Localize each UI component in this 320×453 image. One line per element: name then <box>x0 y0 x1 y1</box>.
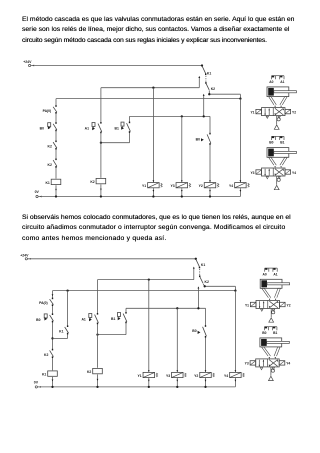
svg-text:B0: B0 <box>262 331 266 335</box>
label Y4 <box>286 362 290 366</box>
wire K2 common feed (diagram 2) <box>197 286 199 308</box>
svg-text:+24V: +24V <box>20 253 29 257</box>
valve solenoid Y1 (diagram 1) <box>142 180 162 192</box>
node 0V junction Y1 (diagram 2) <box>148 386 150 388</box>
valve 5/2 cylinder A diagram 2 <box>256 301 280 309</box>
svg-text:Y2: Y2 <box>287 303 291 307</box>
svg-text:B0: B0 <box>40 127 44 131</box>
limit switch A1 (diagram 1) <box>85 122 102 133</box>
svg-text:K1: K1 <box>59 329 63 333</box>
solenoid pilot Y1 (valve cylinder A diagram 2) <box>250 302 256 306</box>
wire 0V rail (diagram 1) <box>38 196 240 198</box>
label Y2 <box>292 110 296 114</box>
node 0V junction Y3 (diagram 1) <box>181 195 183 197</box>
air supply (valve cylinder A diagram 1) <box>274 116 280 130</box>
wire K1 line (diagram 1) <box>101 76 200 88</box>
label Y1 <box>245 303 249 307</box>
pushbutton PA(0) (diagram 2) <box>39 298 53 306</box>
valve solenoid Y3 (diagram 1) <box>170 180 190 192</box>
svg-text:Y4: Y4 <box>229 184 233 188</box>
wire Y1 branch column (diagram 2) <box>148 280 150 387</box>
svg-text:B1: B1 <box>273 331 277 335</box>
node junction K2-line / K1 hold branch (diagram 2) <box>66 289 68 291</box>
valve solenoid Y4 (diagram 1) <box>229 180 249 192</box>
label Y3 <box>250 171 254 175</box>
svg-text:K1: K1 <box>45 181 49 185</box>
node 0V junction K2 (diagram 2) <box>96 386 98 388</box>
svg-text:Y3: Y3 <box>245 362 249 366</box>
label B1 <box>273 331 277 335</box>
svg-text:K1: K1 <box>207 72 211 76</box>
wire Y4 branch column (diagram 2) <box>234 291 236 387</box>
mechanical link K1-K2 (diagram 2) <box>199 269 201 276</box>
exhaust ports (valve cylinder B diagram 2) <box>260 368 274 370</box>
node junction A1/B1 (diagram 1) <box>100 142 102 144</box>
svg-text:Y4: Y4 <box>224 374 228 378</box>
relay coil K2 (diagram 2) <box>87 368 102 375</box>
air supply (valve cylinder A diagram 2) <box>269 309 275 323</box>
solenoid pilot Y3 (valve cylinder B diagram 1) <box>256 170 262 174</box>
node 0V junction K1 (diagram 2) <box>51 386 53 388</box>
node 0V terminal (diagram 2) <box>34 381 41 388</box>
svg-text:Y3: Y3 <box>170 184 174 188</box>
valve 5/2 cylinder B diagram 2 <box>256 359 280 367</box>
svg-text:K2: K2 <box>48 145 52 149</box>
svg-text:Y1: Y1 <box>137 374 141 378</box>
contact K2 changeover (diagram 1) <box>206 82 215 91</box>
node junction K2-line / Y4 branch (diagram 2) <box>234 289 236 291</box>
wire 0V rail (diagram 2) <box>37 386 235 388</box>
wire +24V rail (diagram 2) <box>27 258 195 260</box>
node junction K2-line / Y4 branch (diagram 1) <box>239 97 241 99</box>
solenoid pilot Y3 (valve cylinder B diagram 2) <box>250 361 256 365</box>
label B1 <box>280 141 284 145</box>
svg-text:K1: K1 <box>42 373 46 377</box>
svg-text:K2: K2 <box>48 163 52 167</box>
svg-text:Y2: Y2 <box>194 374 198 378</box>
solenoid pilot Y4 (valve cylinder B diagram 1) <box>285 170 291 174</box>
wire line II (diagram 1) <box>130 115 211 117</box>
svg-text:A1: A1 <box>273 272 277 276</box>
exhaust ports (valve cylinder B diagram 1) <box>266 177 280 179</box>
svg-text:0V: 0V <box>34 381 39 385</box>
wire K2 line (diagram 1) <box>56 98 240 100</box>
limit switch B0 (diagram 1) <box>40 122 57 131</box>
wire arrow into 0V at K1 (diagram 2) <box>52 379 54 381</box>
cylinder cylinder A diagram 2 <box>260 279 289 288</box>
node junction A1/B1 (diagram 2) <box>96 333 98 335</box>
wire A1-B1 link (diagram 2) <box>98 334 127 336</box>
ruler A0/A1 scale (cylinder A diagram 1) <box>272 76 285 80</box>
svg-text:Y1: Y1 <box>245 303 249 307</box>
node 0V junction Y1 (diagram 1) <box>152 195 154 197</box>
node junction K1-line / Y1 branch (diagram 2) <box>148 278 150 280</box>
node junction B0 / K1 hold (diagram 2) <box>51 337 53 339</box>
tubing lines cylinder-to-valve (cylinder B diagram 1) <box>269 157 288 168</box>
svg-text:A0: A0 <box>269 80 273 84</box>
contact K2 a (diagram 1) <box>48 141 57 150</box>
valve solenoid Y2 (diagram 1) <box>199 180 219 192</box>
wire B1 branch column (diagram 1) <box>129 116 131 142</box>
wire A1 branch column (diagram 2) <box>97 280 99 387</box>
label A0 <box>263 272 267 276</box>
wire K1 holding branch (diagram 2) <box>53 291 68 339</box>
node K2 throw junction (diagram 2) <box>204 285 206 287</box>
node 0V junction Y2 (diagram 1) <box>209 195 211 197</box>
limit switch B0 second (diagram 1) <box>196 133 211 145</box>
wire Y2 branch column (diagram 1) <box>209 116 211 196</box>
svg-text:A1: A1 <box>85 127 89 131</box>
svg-text:Y1: Y1 <box>250 110 254 114</box>
svg-text:K2: K2 <box>44 353 48 357</box>
wire Y2 branch column (diagram 2) <box>205 308 207 387</box>
contact K1 hold (diagram 2) <box>59 325 68 334</box>
contact K1 changeover (diagram 2) <box>196 259 206 268</box>
label Y1 <box>250 110 254 114</box>
wire +24V rail (diagram 1) <box>31 65 202 67</box>
svg-text:PA(0): PA(0) <box>43 109 52 113</box>
svg-text:Y3: Y3 <box>250 171 254 175</box>
svg-text:Y3: Y3 <box>166 374 170 378</box>
svg-text:A1: A1 <box>81 318 85 322</box>
air supply (valve cylinder B diagram 1) <box>274 176 280 190</box>
air supply (valve cylinder B diagram 2) <box>269 367 275 381</box>
solenoid pilot Y1 (valve cylinder A diagram 1) <box>256 109 262 113</box>
wire Y1 branch column (diagram 1) <box>152 88 154 197</box>
svg-text:K2: K2 <box>87 370 91 374</box>
svg-text:Y4: Y4 <box>292 171 296 175</box>
node junction +24V / K1 (diagram 2) <box>195 258 197 260</box>
cylinder cylinder A diagram 1 <box>267 87 296 97</box>
relay coil K2 (diagram 1) <box>90 178 105 185</box>
node 0V junction K1 (diagram 1) <box>55 195 57 197</box>
label B0 <box>269 141 273 145</box>
svg-text:B1: B1 <box>280 141 284 145</box>
svg-text:Y1: Y1 <box>142 184 146 188</box>
limit switch B1 (diagram 1) <box>115 122 131 133</box>
wire left branch K1-coil column (diagram 2) <box>52 291 54 387</box>
svg-text:0V: 0V <box>35 190 40 194</box>
svg-text:Y4: Y4 <box>286 362 290 366</box>
svg-text:Y2: Y2 <box>199 184 203 188</box>
svg-text:A0: A0 <box>263 272 267 276</box>
label A1 <box>280 80 284 84</box>
limit switch B0 (diagram 2) <box>36 313 53 322</box>
svg-text:B0: B0 <box>36 318 40 322</box>
contact K2 b (diagram 1) <box>48 159 57 168</box>
label Y3 <box>245 362 249 366</box>
tubing lines cylinder-to-valve (cylinder A diagram 1) <box>269 97 288 108</box>
cylinder cylinder B diagram 2 <box>260 338 289 347</box>
wire A1 branch column (diagram 1) <box>100 88 102 197</box>
wire Y3 branch column (diagram 1) <box>181 116 183 196</box>
svg-text:+24V: +24V <box>23 60 32 64</box>
svg-text:K2: K2 <box>205 280 209 284</box>
valve solenoid Y1 (diagram 2) <box>137 370 157 382</box>
ruler A0/A1 scale (cylinder A diagram 2) <box>265 268 278 272</box>
svg-text:Y2: Y2 <box>292 110 296 114</box>
wire arrow into 0V at K2 (diagram 2) <box>97 379 99 381</box>
wire A1-B1 link (diagram 1) <box>101 142 130 144</box>
node +24V terminal (diagram 1) <box>23 60 34 66</box>
node junction line II / feed (diagram 1) <box>203 115 205 117</box>
node 0V terminal (diagram 1) <box>35 190 42 197</box>
node junction +24V / K1 (diagram 1) <box>201 64 203 66</box>
wire arrow into 0V at K2 (diagram 1) <box>100 189 102 191</box>
tubing lines cylinder-to-valve (cylinder A diagram 2) <box>262 288 281 300</box>
wire K2 throw to Y4 column (diagram 2) <box>203 284 235 291</box>
svg-text:K1: K1 <box>201 263 205 267</box>
valve solenoid Y4 (diagram 2) <box>224 370 244 382</box>
svg-text:B1: B1 <box>111 317 115 321</box>
relay coil K1 (diagram 1) <box>45 179 60 186</box>
solenoid pilot Y2 (valve cylinder A diagram 1) <box>285 109 291 113</box>
wire K2 throw to Y4 column (diagram 1) <box>209 90 240 98</box>
tubing lines cylinder-to-valve (cylinder B diagram 2) <box>262 347 281 359</box>
svg-text:B0: B0 <box>269 141 273 145</box>
node junction line II / Y3 branch (diagram 2) <box>176 307 178 309</box>
valve solenoid Y3 (diagram 2) <box>166 370 186 382</box>
pushbutton PA(0) (diagram 1) <box>43 105 57 113</box>
wire Y4 branch column (diagram 1) <box>239 99 241 197</box>
label A0 <box>269 80 273 84</box>
valve 5/2 cylinder A diagram 1 <box>262 108 286 116</box>
wire B1 branch column (diagram 2) <box>125 308 127 334</box>
wire Y3 branch column (diagram 2) <box>176 308 178 387</box>
svg-text:B1: B1 <box>115 127 119 131</box>
node junction line II / feed (diagram 2) <box>197 307 199 309</box>
svg-text:K2: K2 <box>90 180 94 184</box>
contact K2 changeover (diagram 2) <box>200 275 209 284</box>
wire arrow into 0V at K1 (diagram 1) <box>55 189 57 191</box>
relay coil K1 (diagram 2) <box>42 370 57 377</box>
mechanical link K1-K2 (diagram 1) <box>205 76 207 83</box>
solenoid pilot Y4 (valve cylinder B diagram 2) <box>279 361 285 365</box>
valve solenoid Y2 (diagram 2) <box>194 370 214 382</box>
exhaust ports (valve cylinder A diagram 2) <box>261 309 275 311</box>
node 0V junction K2 (diagram 1) <box>100 195 102 197</box>
node junction K1-line / Y1 branch (diagram 1) <box>152 87 154 89</box>
exhaust ports (valve cylinder A diagram 1) <box>266 116 280 118</box>
label Y4 <box>292 171 296 175</box>
label A1 <box>273 272 277 276</box>
node +24V terminal (diagram 2) <box>20 253 31 260</box>
wire K2 line (diagram 2) <box>53 290 236 292</box>
limit switch A1 (diagram 2) <box>81 313 98 324</box>
ruler B0/B1 scale (cylinder B diagram 1) <box>272 136 285 140</box>
svg-text:B0: B0 <box>196 137 200 141</box>
contact K2 (diagram 2) <box>44 349 53 358</box>
wire left branch K1-coil column (diagram 1) <box>55 99 57 197</box>
svg-text:B0: B0 <box>192 329 196 333</box>
node K2 throw junction (diagram 1) <box>208 93 210 95</box>
node 0V junction Y3 (diagram 2) <box>176 386 178 388</box>
ruler B0/B1 scale (cylinder B diagram 2) <box>264 327 277 331</box>
label Y2 <box>287 303 291 307</box>
wire K1 line (diagram 2) <box>98 267 195 280</box>
svg-text:A1: A1 <box>280 80 284 84</box>
cylinder cylinder B diagram 1 <box>267 148 296 158</box>
solenoid pilot Y2 (valve cylinder A diagram 2) <box>280 302 286 306</box>
limit switch B1 (diagram 2) <box>111 312 127 323</box>
limit switch B0 second (diagram 2) <box>192 325 206 337</box>
svg-text:PA(0): PA(0) <box>39 301 48 305</box>
node junction line II / Y3 branch (diagram 1) <box>181 115 183 117</box>
wire line II (diagram 2) <box>126 307 206 309</box>
wire K2 common feed (diagram 1) <box>203 94 205 117</box>
contact K1 changeover (diagram 1) <box>202 66 211 76</box>
label B0 <box>262 331 266 335</box>
valve 5/2 cylinder B diagram 1 <box>262 168 286 176</box>
node 0V junction Y2 (diagram 2) <box>204 386 206 388</box>
svg-text:K2: K2 <box>211 87 215 91</box>
